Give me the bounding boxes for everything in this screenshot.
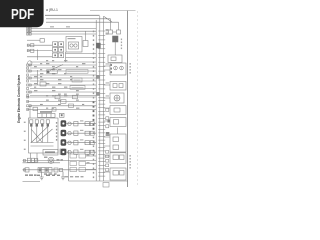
svg-text:Engine Electronic Control Syst: Engine Electronic Control System [17,75,21,123]
svg-text:a (RU-1: a (RU-1 [46,8,58,12]
svg-text:PDF: PDF [11,7,34,23]
